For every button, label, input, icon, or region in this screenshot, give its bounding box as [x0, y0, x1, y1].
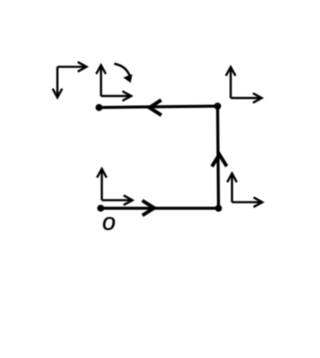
- node D (top-left end): [96, 104, 103, 111]
- frame at origin o: [102, 169, 133, 200]
- node C (top-right): [214, 103, 221, 110]
- node B (bottom-right): [215, 205, 222, 212]
- frame at corner B (bottom-right): [232, 173, 262, 202]
- rotated frame F' (detached, top-left): [57, 67, 86, 98]
- wire A-B (bottom segment): [101, 207, 219, 210]
- frame at path end D (upright): [101, 65, 131, 96]
- frame at corner C (top-right): [231, 67, 262, 98]
- rotation arrow (curved): [114, 64, 132, 82]
- wire B-C (right segment): [216, 106, 220, 208]
- direction arrow right (bottom segment): [142, 201, 154, 216]
- wire C-D (top segment): [99, 106, 218, 107]
- node A (origin o): [97, 205, 104, 212]
- direction arrow up (right segment): [212, 155, 227, 167]
- svg-text:o: o: [102, 209, 115, 236]
- direction arrow left (top segment): [149, 100, 161, 115]
